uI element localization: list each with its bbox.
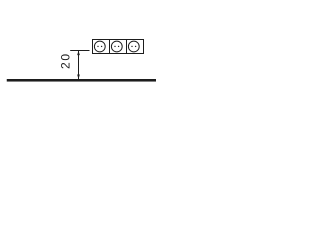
socket circle 1 [94,41,105,52]
svg-text:20: 20 [58,52,72,69]
socket 2 pin holes [114,46,115,47]
floor/surface line [7,79,156,82]
socket outlet box 3 [127,40,144,54]
dimension line [78,51,80,80]
socket outlet box 1 [93,40,110,54]
socket 1 pin holes [97,46,98,47]
dimension arrow up [77,51,80,56]
socket outlet box 2 [110,40,127,54]
socket circle 3 [128,41,139,52]
dimension arrow down [77,75,80,80]
socket circle 2 [111,41,122,52]
dimension extension line [70,50,89,52]
socket 3 pin holes [131,46,132,47]
